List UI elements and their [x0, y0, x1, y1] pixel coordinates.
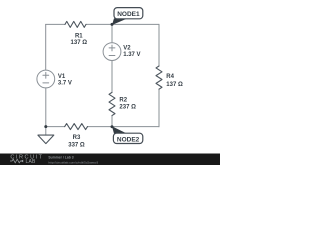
svg-text:NODE2: NODE2	[117, 136, 140, 143]
svg-text:LAB: LAB	[26, 159, 37, 165]
svg-text:237 Ω: 237 Ω	[119, 105, 136, 111]
svg-text:R1: R1	[75, 33, 83, 39]
node junction dot bottom-left	[44, 125, 47, 128]
node NODE2 wedge	[112, 126, 127, 133]
footer text	[48, 156, 98, 165]
svg-text:NODE1: NODE1	[117, 11, 140, 18]
wire top-left horizontal	[46, 23, 65, 25]
node junction dot bottom-middle	[111, 125, 114, 128]
footer logo arrow	[21, 160, 23, 163]
footer logo zigzag	[10, 159, 22, 163]
wire bottom horizontal left	[46, 126, 65, 128]
svg-text:http://circuitlab.com/c/edit/5: http://circuitlab.com/c/edit/5c5aawv3	[48, 161, 98, 165]
wire middle vertical mid	[111, 61, 113, 93]
footer CircuitLab logo	[10, 155, 43, 165]
wire right vertical lower	[158, 89, 160, 127]
svg-text:137 Ω: 137 Ω	[166, 82, 183, 88]
wire bottom horizontal right	[88, 126, 160, 128]
svg-text:V1: V1	[58, 74, 66, 80]
svg-text:137 Ω: 137 Ω	[71, 40, 88, 46]
voltage source V2	[103, 43, 121, 61]
resistor R1	[65, 21, 86, 27]
node NODE2 box	[113, 133, 142, 143]
svg-text:1.37 V: 1.37 V	[123, 52, 140, 58]
node NODE1 wedge	[112, 18, 128, 25]
resistor R3	[65, 124, 88, 130]
node NODE1 box	[114, 8, 143, 19]
node junction dot top	[111, 23, 114, 26]
svg-text:Summer / Lab 3: Summer / Lab 3	[48, 156, 73, 160]
voltage source V1	[37, 70, 55, 88]
svg-text:V2: V2	[123, 45, 131, 51]
resistor R2	[109, 92, 115, 115]
svg-text:R2: R2	[119, 97, 127, 103]
wire middle vertical top	[111, 24, 113, 42]
svg-text:3.7 V: 3.7 V	[58, 81, 72, 87]
resistor R4	[156, 66, 162, 89]
footer bar	[0, 154, 220, 166]
wire left vertical lower	[45, 88, 47, 127]
svg-text:337 Ω: 337 Ω	[68, 142, 85, 148]
wire right vertical upper	[158, 24, 160, 66]
wire top horizontal to right corner	[86, 23, 159, 25]
svg-text:R4: R4	[166, 74, 174, 80]
ground	[38, 135, 54, 144]
svg-text:R3: R3	[73, 135, 81, 141]
wire middle vertical bottom	[111, 116, 113, 127]
wire ground stem	[45, 127, 47, 136]
wire left vertical upper	[45, 24, 47, 70]
